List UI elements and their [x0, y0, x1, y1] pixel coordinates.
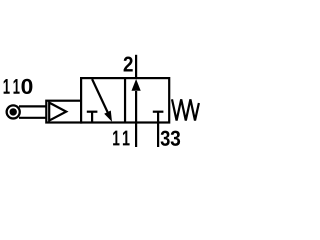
left box: flow path 2->3 diagonal with arrow	[92, 79, 112, 122]
divider between position boxes	[124, 78, 126, 122]
port 3 label	[161, 131, 181, 146]
valve body outline (two position boxes)	[81, 78, 169, 122]
port 1 label	[113, 131, 130, 146]
actuator box	[46, 101, 81, 123]
right box: blocked port 3 T	[153, 112, 164, 123]
port 3 line (bottom)	[157, 123, 159, 148]
return spring (zigzag)	[172, 99, 199, 120]
plunger stem (two parallel lines)	[19, 106, 46, 117]
port 1 line (bottom)	[135, 123, 137, 148]
actuator triangle (open, pointing right)	[49, 103, 66, 121]
roller circle with center dot	[7, 105, 20, 118]
left box: blocked port T	[87, 112, 98, 123]
label 110 (component designator)	[4, 79, 33, 94]
right box: flow path 1->2 vertical arrow up	[132, 79, 141, 123]
port 2 line (top)	[135, 55, 137, 78]
port 2 label	[124, 56, 133, 71]
